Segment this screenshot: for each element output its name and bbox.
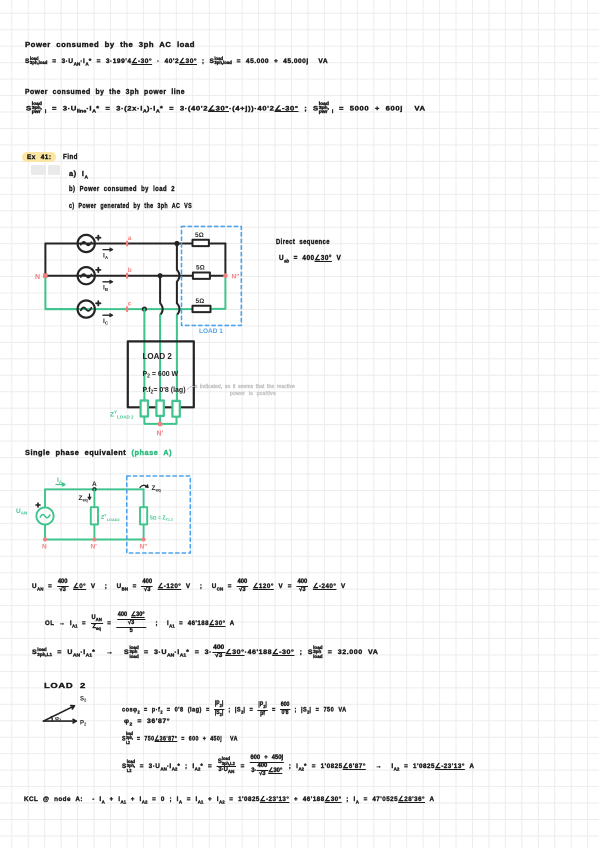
plus mark source B	[96, 268, 100, 272]
svg-text:N′: N′	[157, 431, 164, 438]
svg-text:UAN: UAN	[16, 508, 27, 516]
svg-text:N: N	[42, 544, 47, 551]
wire drop phase A green tail	[176, 315, 178, 400]
svg-text:φ2: φ2	[55, 716, 62, 722]
node Npp (red)	[223, 273, 228, 278]
load 1 dashed box	[182, 226, 242, 325]
source VC U3	[78, 301, 95, 318]
node Np load2 (red)	[158, 422, 163, 427]
svg-text:Zeq: Zeq	[152, 485, 161, 493]
KCL node A formula	[24, 795, 434, 806]
wire drop phase B with hop	[160, 276, 163, 315]
branch Z_L1 wire	[143, 489, 145, 507]
node Npp sp (red)	[142, 538, 146, 542]
formula S 3ph power line	[26, 102, 426, 116]
plus mark source A	[96, 236, 100, 240]
svg-text:b: b	[128, 267, 132, 274]
wire load2 mid stub	[159, 416, 161, 424]
section title: single phase equivalent	[25, 449, 172, 458]
wire drop phase C (green)	[143, 309, 145, 400]
wire R1 to right bus	[209, 243, 226, 245]
note: direct sequence	[276, 238, 330, 247]
S load 3ph L2	[122, 732, 238, 745]
node c (red)	[126, 306, 128, 312]
svg-text:ZYLOAD 2: ZYLOAD 2	[110, 410, 134, 420]
resistor R2 5ohm	[193, 273, 210, 279]
S = 3 U I formula	[122, 755, 474, 778]
plus mark U_AN	[36, 503, 40, 507]
wire phase A	[45, 243, 192, 245]
right bus green part	[211, 276, 226, 309]
svg-text:ZYLOAD2: ZYLOAD2	[101, 514, 120, 523]
node A dot	[92, 487, 96, 491]
resistor R1 5ohm	[193, 240, 209, 246]
faint gray annotation	[192, 383, 295, 392]
item c	[69, 202, 192, 211]
resistor Z2b (green)	[156, 401, 163, 416]
title: power consumed by 3ph AC load	[25, 41, 195, 50]
svg-text:IC: IC	[103, 318, 109, 326]
label Zeq with curved arrow	[140, 485, 148, 488]
wire sp top	[45, 489, 144, 507]
junction dot phase B drop	[158, 273, 163, 278]
wire load2 bottom connector	[144, 417, 176, 424]
node N sp (red)	[43, 538, 47, 542]
cos phi formula	[122, 701, 347, 718]
wire sp bottom	[45, 525, 144, 540]
node Np sp (red)	[92, 538, 96, 542]
source VA U1	[78, 235, 95, 252]
item b	[69, 185, 175, 194]
node N (red)	[43, 273, 48, 278]
svg-text:c: c	[128, 300, 132, 307]
node a (red)	[126, 241, 128, 247]
branch Z_Y,load2 wire	[93, 489, 95, 507]
svg-text:N: N	[35, 274, 40, 281]
svg-text:S2: S2	[80, 697, 87, 703]
wire neutral bus left (black part)	[44, 244, 46, 276]
svg-text:N′: N′	[91, 544, 98, 551]
resistor R3 5ohm	[193, 306, 211, 312]
svg-text:IA: IA	[103, 253, 109, 261]
svg-text:IB: IB	[103, 285, 109, 293]
angle arc phi2	[51, 717, 52, 721]
resistor Z2a (green)	[141, 401, 148, 417]
svg-text:5Ω = ZY,L1: 5Ω = ZY,L1	[150, 516, 173, 522]
svg-text:P.f2= 0'8 (lag): P.f2= 0'8 (lag)	[143, 387, 186, 396]
LOAD 2 section title	[44, 682, 86, 691]
wire phase C (green)	[45, 308, 192, 310]
resistor Z_L1	[140, 507, 147, 524]
junction dot phase C drop	[142, 307, 147, 312]
current label I_B arrow	[103, 280, 113, 283]
plus mark source C	[96, 301, 100, 305]
source VB U2	[78, 267, 95, 284]
svg-text:Zeq: Zeq	[79, 495, 88, 503]
vector S2	[43, 706, 74, 722]
svg-text:A: A	[92, 481, 97, 488]
dashed box Zeq	[127, 476, 191, 553]
vector P2	[43, 719, 76, 723]
formula line OL -> I_A1	[45, 612, 235, 635]
wire drop phase B green tail	[159, 315, 161, 400]
svg-text:N″: N″	[140, 544, 148, 551]
right bus black part	[224, 244, 226, 276]
wire R2 to node Npp	[210, 275, 226, 277]
svg-text:5Ω: 5Ω	[196, 265, 205, 272]
svg-text:5Ω: 5Ω	[195, 232, 204, 239]
gray annotation arrow	[188, 386, 195, 389]
gray placeholder boxes	[31, 165, 46, 175]
svg-text:5Ω: 5Ω	[196, 298, 205, 305]
highlighted exercise label Ex 41	[22, 152, 56, 162]
svg-text:LOAD 1: LOAD 1	[199, 328, 223, 335]
current label I_C arrow	[103, 314, 113, 317]
svg-text:LOAD 2: LOAD 2	[143, 352, 173, 361]
wire drop phase A with hops	[177, 244, 180, 304]
svg-text:N″: N″	[232, 274, 240, 281]
phi value	[124, 717, 170, 728]
LOAD 2 box	[128, 341, 194, 407]
resistor Z2c (green)	[172, 401, 179, 417]
title: power consumed by 3ph power line	[25, 88, 185, 97]
svg-text:a: a	[128, 235, 132, 242]
item a	[69, 170, 88, 181]
resistor Z_Y_load2	[91, 507, 98, 524]
wire phase B	[45, 275, 193, 277]
junction dot phase A drop	[174, 241, 179, 246]
svg-text:P2: P2	[80, 721, 87, 727]
current label I_A arrow	[103, 248, 113, 251]
formula S 3ph load	[25, 57, 328, 68]
wire neutral bus left (green part)	[45, 276, 77, 309]
formula line S_3ph L1	[32, 645, 378, 660]
source U_AN (green)	[36, 507, 53, 524]
node b (red)	[126, 273, 128, 279]
formula line U_AN ...	[32, 579, 346, 594]
